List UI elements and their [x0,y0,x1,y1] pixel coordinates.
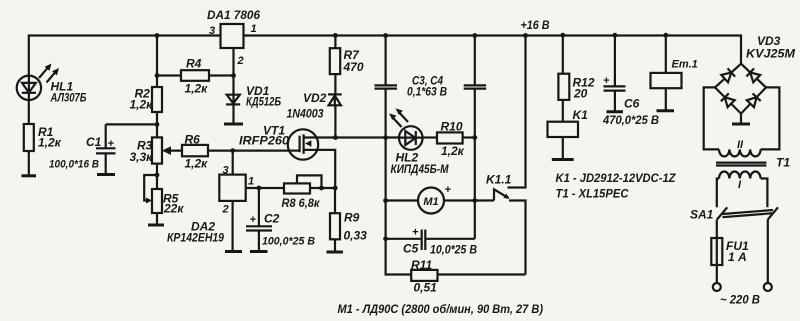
motor M1 [386,188,494,214]
node drain/C3 line [383,135,388,140]
svg-text:II: II [737,139,744,151]
terminal left [713,283,721,291]
transistor VT1 IRFP260 [288,129,318,159]
LED HL2 [389,108,423,149]
svg-text:1,2к: 1,2к [38,136,62,150]
svg-text:КР142ЕН19: КР142ЕН19 [167,231,224,245]
svg-text:R10: R10 [441,120,463,134]
svg-text:1,2к: 1,2к [185,82,209,96]
resistor R6 row with arrow to R3 [170,150,300,152]
node rail/R2 [155,33,160,38]
resistor R2 [152,87,162,112]
ground (K1) [552,158,574,161]
wire HL2 to R10 [423,136,437,138]
svg-text:C2: C2 [264,212,280,226]
svg-text:КИПД45Б-М: КИПД45Б-М [391,162,450,176]
svg-text:0,33: 0,33 [344,229,368,243]
svg-text:АЛ307Б: АЛ307Б [50,91,87,105]
svg-text:1,2к: 1,2к [441,144,465,158]
bridge rectifier VD3 [715,64,766,114]
svg-text:470,0*25 В: 470,0*25 В [602,113,659,127]
svg-text:1,2к: 1,2к [130,98,154,112]
svg-text:1: 1 [251,23,257,35]
ground (VD3 bridge) [740,114,742,124]
svg-text:IRFP260: IRFP260 [239,134,289,148]
wire C1 top to R2/R3 node [106,123,157,125]
wire HL1 to R1 [28,100,30,124]
svg-text:470: 470 [343,60,364,74]
node M1 left [383,198,388,203]
node R8 wiper [319,186,324,191]
node R8/R9 [333,186,338,191]
svg-text:R6: R6 [185,133,201,147]
svg-text:+: + [250,214,257,226]
svg-text:КД512Б: КД512Б [246,95,281,109]
svg-text:T1: T1 [776,156,790,170]
transformer T1 primary I [719,172,761,179]
svg-text:3: 3 [209,25,215,37]
IC DA1 7806 [221,24,244,48]
node R10/C4 line [472,135,477,140]
node C1 branch [155,122,160,127]
ground (C6) [607,110,624,113]
svg-text:+16 В: +16 В [521,18,550,32]
svg-text:KVJ25M: KVJ25M [746,47,796,61]
wire top rail left segment [29,36,221,76]
IC DA2 КР142ЕН19 [219,175,245,201]
svg-text:+: + [108,138,115,150]
wire DA2 pin2 to ground [232,201,234,251]
svg-text:1N4003: 1N4003 [287,107,324,121]
node rail/+16V [523,33,528,38]
diode VD2 [328,94,342,137]
svg-text:Em.1: Em.1 [672,59,698,71]
svg-text:K1: K1 [573,108,589,122]
resistor R1 [24,124,34,151]
svg-text:R11: R11 [411,258,432,272]
ground (VD1) [224,123,243,126]
svg-text:10,0*25 В: 10,0*25 В [430,243,477,257]
svg-text:2: 2 [237,55,244,67]
relay coil K1 [548,122,579,137]
wire vertical chain x157 from rail [156,36,158,226]
wire top rail right segment [244,36,742,64]
wire R1 to ground [28,151,30,176]
svg-text:2: 2 [222,204,229,216]
wire DA2 pin1 row [246,187,284,189]
svg-text:100,0*16 В: 100,0*16 В [49,159,99,171]
diode VD1 [226,95,240,124]
svg-text:М1: М1 [423,196,438,208]
capacitor C2 [246,188,272,251]
resistor R10 [437,132,463,143]
svg-text:0,51: 0,51 [414,281,438,295]
svg-text:+: + [445,184,452,196]
node R4/pin2 [231,73,236,78]
svg-text:100,0*25 В: 100,0*25 В [262,236,315,248]
node rail/R7 [333,33,338,38]
capacitor C6 [604,35,626,111]
svg-text:1 А: 1 А [728,250,747,264]
svg-text:C6: C6 [624,97,640,111]
svg-text:М1 - ЛД90С (2800 об/мин, 90 Вт: М1 - ЛД90С (2800 об/мин, 90 Вт, 27 В) [338,302,544,316]
resistor R9 [334,188,336,252]
svg-text:C5: C5 [403,242,419,256]
terminal right [764,283,772,291]
svg-text:0,1*63 В: 0,1*63 В [407,85,447,99]
resistor R11 [411,270,437,281]
svg-text:+: + [603,75,610,87]
resistor R12 [562,35,564,122]
node DA2 pin3 branch [230,148,235,153]
transformer T1 core [716,162,766,164]
svg-text:VD2: VD2 [303,91,327,105]
resistor R8 (trimmer) [284,183,310,193]
node C5 left [383,236,388,241]
svg-text:~ 220 В: ~ 220 В [720,293,760,307]
node C2 [257,186,262,191]
fuse FU1 [716,220,718,284]
resistor R5 (trimmer) with wiper loop [144,175,157,201]
node rail/C4 [472,33,477,38]
svg-text:R4: R4 [186,57,202,71]
ground (Em.1) [657,109,675,112]
node R5 branch [155,173,160,178]
ground (R5) [148,224,164,227]
svg-text:K1.1: K1.1 [486,173,512,187]
ground (R9) [327,251,344,254]
node rail/C6 [613,33,618,38]
svg-text:1,2к: 1,2к [185,157,209,171]
svg-text:22к: 22к [163,202,184,216]
ground (DA2) [225,250,242,253]
svg-text:3: 3 [223,165,229,177]
node rail/R12 [560,33,565,38]
capacitor C4 [464,36,486,239]
svg-text:20: 20 [573,87,588,101]
svg-text:R8 6,8к: R8 6,8к [282,196,321,210]
wire SA1 right pole down [767,220,769,284]
relay contact K1.1 [494,36,526,275]
node drain/VD2 [333,135,338,140]
ground (C2) [250,250,268,253]
node rail/C3 [383,33,388,38]
LED HL1 [17,64,59,101]
wire to DA2 pin 3 [232,151,234,175]
svg-text:DA1 7806: DA1 7806 [207,8,260,22]
svg-text:Т1 - XL15PEC: Т1 - XL15PEC [556,187,629,201]
capacitor C3 [375,36,412,275]
wire VT1 source to R8/R9 node [305,150,336,188]
svg-text:SA1: SA1 [690,208,714,222]
resistor R4 row [157,74,234,76]
transformer T1 secondary II [704,87,719,149]
node R4 branch [155,73,160,78]
resistor R3 (pot) [152,137,162,163]
svg-text:+: + [412,227,419,239]
capacitor C1 [96,124,116,174]
ground (C1) [97,173,115,176]
switch SA1 [717,207,778,219]
node M1 right [472,198,477,203]
svg-text:3,3к: 3,3к [130,150,154,164]
svg-text:C1: C1 [86,135,102,149]
svg-text:K1 - JD2912-12VDC-1Z: K1 - JD2912-12VDC-1Z [556,171,677,185]
ground (R1) [22,174,37,177]
capacitor C5 [386,230,475,251]
electromagnet Em.1 [665,35,667,110]
wire DA1 pin2 down [232,48,234,95]
svg-text:1: 1 [248,176,254,188]
resistor R7 [334,35,336,94]
svg-text:R9: R9 [344,211,360,225]
node rail/Em.1 [663,33,668,38]
wire VT1 drain row [305,136,400,138]
